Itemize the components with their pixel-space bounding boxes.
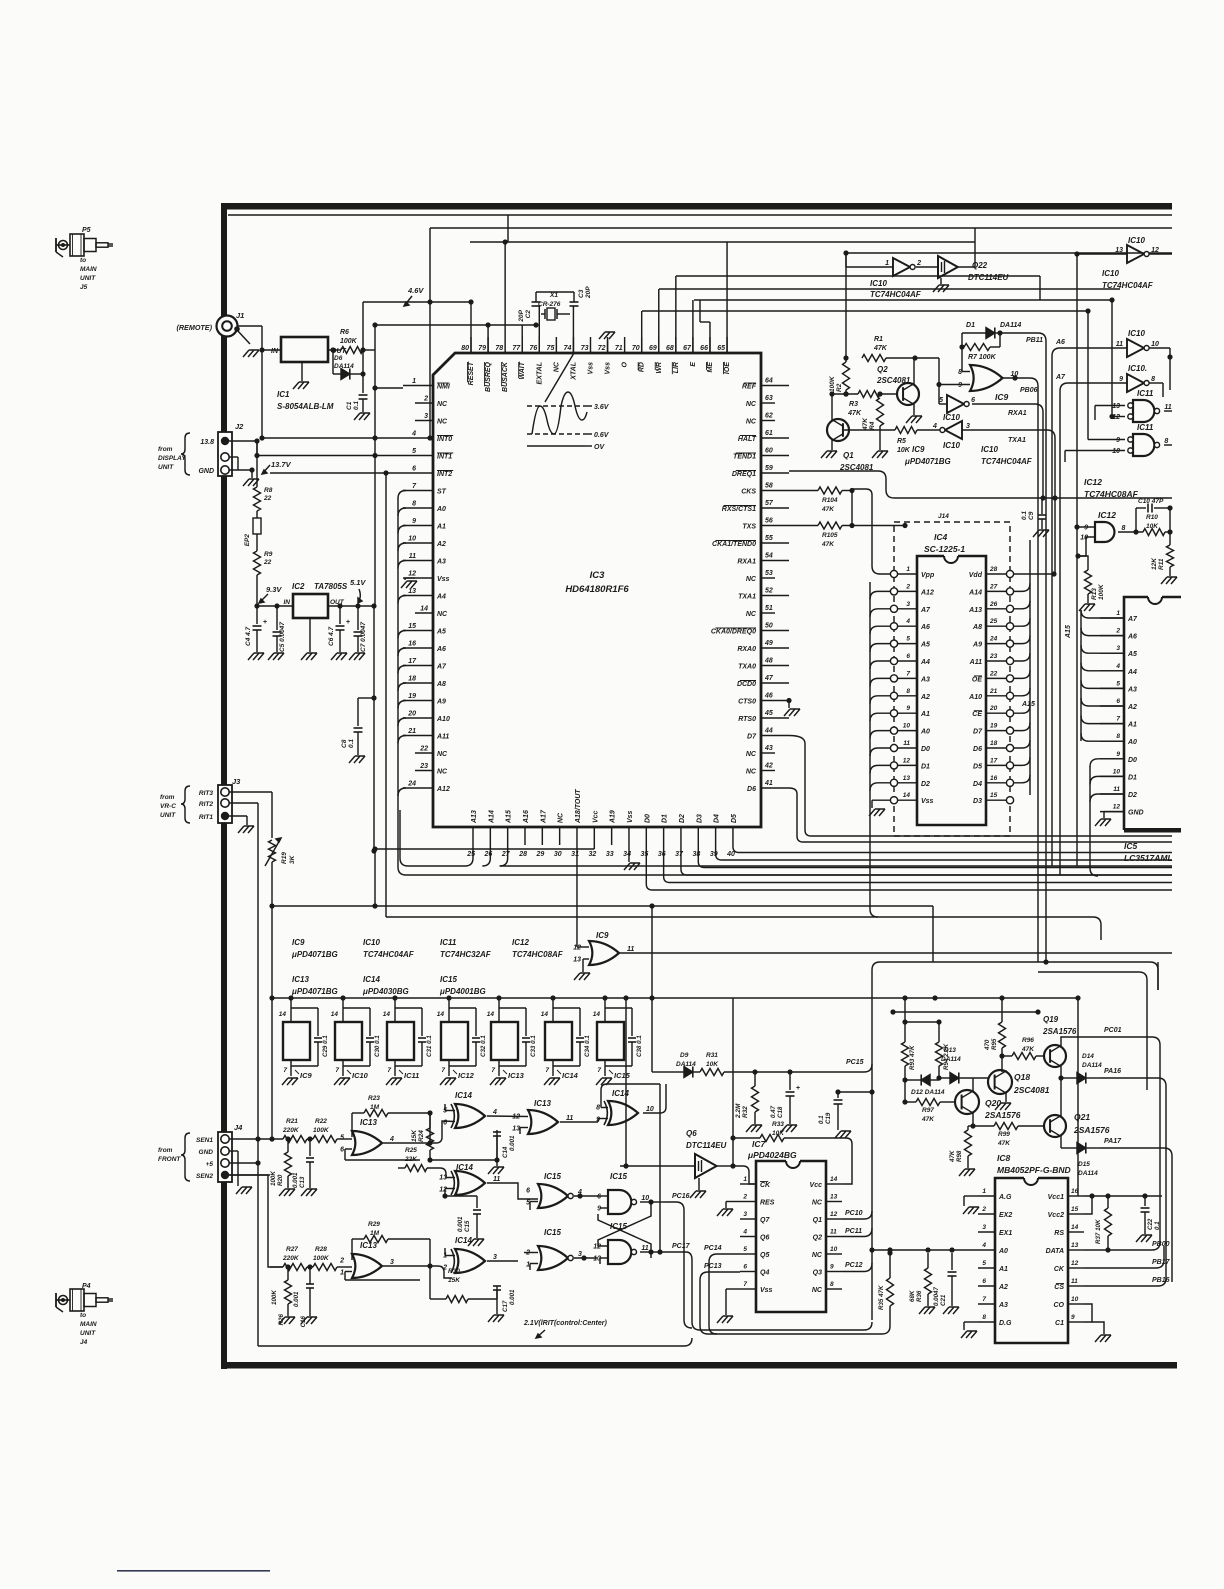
svg-text:PB06: PB06 [1020,387,1038,394]
wire x660 from IC14b to PC14 [659,1084,661,1254]
wire Q19 collector to PC01 [1061,1037,1090,1046]
svg-text:CK: CK [1054,1266,1065,1273]
svg-text:PC11: PC11 [845,1228,862,1235]
wire bus left elbow [429,228,431,438]
wire rail y1012 [893,1011,1038,1013]
svg-text:DA114: DA114 [334,363,354,370]
svg-text:RXS/CTS1: RXS/CTS1 [722,506,756,513]
svg-text:μPD4071BG: μPD4071BG [291,950,338,959]
svg-text:Vss: Vss [921,798,934,805]
wire long y917 [386,916,1093,918]
svg-text:C1: C1 [346,401,353,410]
svg-text:A13: A13 [471,810,478,824]
svg-text:NMI: NMI [437,384,451,391]
label IC10 TC74HC04AF row [363,938,415,959]
svg-text:53: 53 [765,570,773,577]
svg-text:RIT1: RIT1 [199,814,213,821]
IC4 pin 2 A12 [890,583,934,596]
IC3 pin 71 O [615,337,629,367]
ground Q2 emitter [906,404,922,423]
svg-text:MAIN: MAIN [80,266,97,273]
svg-text:47K: 47K [862,417,869,431]
ground IC15 bypass [596,1078,612,1085]
svg-text:C19: C19 [825,1112,832,1124]
svg-text:IC11: IC11 [1137,389,1154,398]
svg-text:58: 58 [765,483,773,490]
svg-text:IC15: IC15 [440,975,457,984]
wire R9 to IC2 IN rail [256,575,258,606]
svg-text:A1: A1 [920,711,930,718]
svg-text:12: 12 [408,571,416,578]
IC8 pin 9 C1 [1055,1314,1084,1327]
svg-text:IN: IN [271,348,279,355]
variable resistor R19 3K [265,838,296,866]
wire IC13a to IC14a [383,1113,455,1143]
IC7 pin 11 Q2 [813,1229,842,1242]
svg-text:R28: R28 [315,1246,327,1253]
wire A18/TOUT long vertical [576,845,578,936]
svg-text:17: 17 [408,658,417,665]
wire PB06 down [1030,378,1038,962]
ground C9 [1033,530,1049,537]
IC3 pin 14 NC [415,606,448,619]
ground IC3 pin34 Vss [624,845,640,870]
IC3 pin 46 CTS0 [738,693,789,706]
svg-text:R22: R22 [315,1118,327,1125]
IC3 pin 47 DCD0 [737,675,789,688]
svg-text:0.1: 0.1 [348,739,355,748]
svg-text:1: 1 [340,1270,344,1277]
svg-text:D1: D1 [662,814,669,823]
svg-text:+5: +5 [206,1161,214,1168]
svg-text:8: 8 [982,1314,986,1321]
capacitor C15 0.001 [445,1196,481,1238]
IC5 LC3517AML body [1124,597,1181,833]
svg-text:14: 14 [331,1011,339,1018]
svg-text:J14: J14 [938,513,949,520]
svg-text:3K: 3K [289,854,296,864]
svg-text:27: 27 [989,583,998,590]
ground R20 [279,1189,295,1196]
resistor R31 10K [693,1052,724,1076]
IC8 pin 4 A0 [978,1242,1008,1255]
ground Q18 emitter [995,1092,1011,1110]
wire node x1077 down [1076,254,1078,527]
svg-text:0.1: 0.1 [1154,1221,1161,1230]
resistor R29 1M [352,1221,430,1266]
IC4 pin 1 Vpp [890,566,935,579]
svg-text:66: 66 [700,345,708,352]
IC7 pin 3 Q7 [740,1211,770,1224]
IC7 pin 14 Vcc [810,1176,842,1189]
svg-text:C5 0.0047: C5 0.0047 [279,622,286,652]
svg-text:2.1V(lRIT(control:Center): 2.1V(lRIT(control:Center) [523,1320,608,1327]
ground J1 [237,330,250,344]
svg-text:R21: R21 [286,1118,298,1125]
inverter IC10 pins 5-6 [939,395,975,422]
svg-text:18: 18 [990,740,998,747]
svg-text:13: 13 [1071,1242,1079,1249]
svg-text:ST: ST [437,489,447,496]
IC4 pin 6 A4 [890,653,930,666]
wire IC13a out [0,0,1,1]
junction CKS-TXS [851,491,853,526]
svg-text:R36: R36 [916,1290,923,1302]
svg-text:A6: A6 [1055,339,1065,346]
wire R19 down [271,862,273,906]
IC8 pin 10 CO [1054,1296,1085,1309]
svg-text:R27: R27 [286,1246,298,1253]
IC3 pin 51 NC [746,605,775,618]
inverter IC10 pins 9-8 [1119,364,1155,392]
ground C7 [349,653,365,660]
ground C1 [354,413,370,420]
wire cross-couple lower [598,1214,651,1258]
svg-text:C1: C1 [1055,1320,1064,1327]
svg-text:A2: A2 [998,1284,1008,1291]
svg-text:R35 47K: R35 47K [878,1285,885,1310]
wire Q21 emitter up [1060,1078,1062,1116]
svg-text:J5: J5 [80,284,88,291]
IC3 pin 67 E [683,337,697,367]
svg-text:IC15: IC15 [544,1228,561,1237]
svg-text:10: 10 [830,1246,838,1253]
svg-text:TC74HC32AF: TC74HC32AF [440,950,492,959]
IC3 pin 38 D3 [692,814,703,858]
capacitor C7 0.0047 [354,606,368,652]
resistor R33 10K [733,1121,846,1142]
svg-text:5: 5 [906,636,910,643]
svg-text:BUSACK: BUSACK [502,361,509,392]
svg-text:C2: C2 [525,310,532,319]
resistor R99 47K [973,1123,1044,1148]
svg-text:14: 14 [541,1011,549,1018]
wire INT2 [270,472,403,474]
svg-text:from: from [158,1147,173,1154]
svg-text:R29: R29 [368,1221,380,1228]
wire TXA1 [962,430,1055,574]
label IC3 HD64180R1F6 [565,570,629,595]
svg-text:1: 1 [743,1176,747,1183]
svg-text:76: 76 [529,345,537,352]
svg-text:15K: 15K [411,1129,418,1142]
ground IC1 [301,362,303,381]
svg-text:LIR: LIR [673,362,680,373]
svg-text:8: 8 [1121,525,1125,532]
svg-text:13: 13 [903,775,911,782]
svg-text:O: O [622,361,629,367]
svg-text:A13: A13 [968,607,982,614]
svg-text:A8: A8 [436,681,446,688]
capacitor C16 0.001 [293,1267,314,1327]
svg-text:NC: NC [746,769,757,776]
svg-text:2SA1576: 2SA1576 [984,1110,1021,1120]
svg-text:RD: RD [639,362,646,372]
svg-text:8: 8 [596,1105,600,1112]
op-amp IC1 S-8054ALB-LM box [271,337,347,362]
svg-text:DISPLAY: DISPLAY [158,455,186,462]
wire Vcc pin14 loop [842,1138,852,1184]
svg-text:C17: C17 [502,1300,509,1312]
label 9.3V [259,585,282,603]
svg-text:R97: R97 [922,1107,934,1114]
resistor R5 10K [895,427,917,455]
svg-text:10K: 10K [706,1061,719,1068]
label IC14 uPD4030BG row [362,975,409,996]
transistor Q22 DTC114EU [938,256,1009,282]
svg-text:μPD4001BG: μPD4001BG [439,987,486,996]
svg-text:11: 11 [830,1229,837,1236]
ground C1 loop [1092,1322,1111,1342]
svg-text:12: 12 [1151,247,1159,254]
IC7 uPD4024BG body [756,1161,826,1312]
svg-text:from: from [158,446,173,453]
svg-text:9: 9 [1119,376,1123,383]
svg-text:CTS0: CTS0 [738,699,756,706]
svg-text:Q4: Q4 [760,1270,769,1277]
ground C17 [488,1315,504,1322]
svg-text:10: 10 [1080,535,1088,542]
transistor Q1 2SC4081 [827,419,874,472]
svg-text:IC12: IC12 [1084,477,1102,487]
svg-text:2: 2 [339,1258,344,1265]
IC7 pin 8 NC [812,1281,842,1294]
svg-text:PC16: PC16 [672,1193,690,1200]
wire Q21 collector down [1060,1136,1062,1148]
IC3 pin 11 A3 [403,553,446,566]
resistor R11 12K [1151,508,1174,576]
diode D13 DA114 [939,1047,988,1084]
svg-text:74: 74 [564,345,572,352]
ground R4 [872,451,888,458]
svg-text:PC14: PC14 [704,1245,722,1252]
svg-text:from: from [160,794,175,801]
svg-text:14: 14 [279,1011,287,1018]
svg-text:A5: A5 [436,629,446,636]
wire IC14c out to IC15a [487,1183,538,1199]
svg-text:A15: A15 [1021,701,1035,708]
svg-text:IC13: IC13 [508,1071,525,1080]
svg-text:R13: R13 [1091,588,1098,600]
wire IC14a pin5 in [445,1110,455,1112]
svg-text:IC9: IC9 [912,445,925,454]
wire R1 right [886,357,939,359]
svg-text:6: 6 [597,1194,601,1201]
IC3 pin 35 D0 [641,814,652,858]
capacitor C19 0.1 [818,1089,843,1130]
inverter IC10 pins 4-3 [932,421,970,450]
svg-text:56: 56 [765,518,773,525]
capacitor C5 0.0047 [273,606,287,652]
ground C8 [349,756,365,763]
svg-text:A0: A0 [436,506,446,513]
svg-text:A8: A8 [972,624,982,631]
nand-gate IC11 pins 13,12,11 [1112,389,1172,422]
wire IC14c pin12 [445,1188,455,1190]
IC3 pin 70 RD [632,337,646,372]
wire top rail to Q19 area [0,0,1,1]
svg-text:4: 4 [905,618,910,625]
wire PC11 [842,1228,872,1237]
IC3 pin 76 EXTAL [529,337,543,384]
svg-text:R37 10K: R37 10K [1095,1219,1102,1244]
capacitor C22 0.1 [1141,1196,1162,1234]
label to MAIN UNIT J4 [80,1312,97,1346]
svg-text:IC9: IC9 [300,1071,313,1080]
IC4 pin 10 A0 [890,723,930,736]
resistor R23 1M [352,1095,433,1117]
label 13.7V [262,460,292,474]
resistor R93 47K [902,1042,917,1102]
svg-text:60: 60 [765,448,773,455]
wire J2 pin2 [229,456,238,458]
wire J1 rail down [261,350,263,438]
IC8 pin 2 EX2 [978,1206,1012,1219]
wire R3 to Q2 base [880,393,898,395]
IC3 pin 3 NC [415,413,448,426]
IC8 pin 5 A1 [978,1260,1008,1273]
svg-text:R25: R25 [405,1147,417,1154]
svg-text:59: 59 [765,465,773,472]
svg-text:R6: R6 [340,329,349,336]
IC4 pin 5 A5 [890,636,930,649]
resistor R10 10K [1143,514,1173,536]
svg-text:72: 72 [598,345,606,352]
ground C14 [496,1160,498,1166]
wire Q2 rail down [845,253,847,358]
svg-text:D14: D14 [1082,1053,1094,1060]
svg-text:3: 3 [578,1251,582,1258]
wire x905 down [904,998,906,1042]
svg-text:5: 5 [340,1135,344,1142]
svg-text:PC10: PC10 [845,1210,863,1217]
IC3 pin 42 NC [746,763,775,776]
svg-text:47K: 47K [1021,1046,1035,1053]
IC3 pin 77 WAIT [512,337,526,380]
IC3 pin 13 A4 [403,588,446,601]
svg-text:100K: 100K [271,1290,278,1305]
svg-text:9: 9 [412,518,416,525]
svg-text:IC13: IC13 [360,1241,377,1250]
svg-text:IC13: IC13 [360,1118,377,1127]
wire IC15c pin13 [600,1257,608,1259]
svg-text:R23: R23 [368,1095,380,1102]
wire 5V rail lower [373,606,375,698]
IC5 pin 10 D1 [1100,768,1137,781]
svg-text:65: 65 [717,345,725,352]
IC4 pin 26 A13 [968,601,1013,614]
IC3 pin 21 A11 [403,728,449,741]
wire J4 +5 [229,1162,258,1164]
svg-text:A.G: A.G [998,1194,1012,1201]
IC3 pin 65 IOE [717,337,731,374]
svg-text:A6: A6 [920,624,930,631]
svg-text:1: 1 [1116,610,1120,617]
svg-text:6: 6 [982,1278,986,1285]
wire IC13b pin13 [520,1127,528,1129]
label IC7 uPD4024BG [747,1139,797,1160]
svg-text:48: 48 [764,658,773,665]
svg-text:470: 470 [984,1039,991,1051]
IC3 pin 68 LIR [666,337,680,374]
svg-text:NC: NC [437,419,448,426]
IC3 pin 12 Vss [403,571,450,584]
wire to IC10 pin13 [1077,253,1127,255]
svg-text:J2: J2 [235,422,244,431]
capacitor C8 0.1 [341,698,374,755]
wire IC3 pin70 up [641,311,643,353]
wire bus line y228 [430,227,1172,229]
wire INT0 [262,437,403,439]
capacitor C31 0.1 [395,1008,433,1066]
svg-text:Vcc1: Vcc1 [1048,1194,1064,1201]
wire IC15d pin2 [524,1252,538,1254]
IC3 pin 63 NC [746,395,775,408]
svg-text:C33 0.1: C33 0.1 [530,1035,537,1057]
svg-text:Q2: Q2 [877,365,888,374]
label IC10 TC74HC04AF [981,445,1033,466]
IC3 pin 29 A17 [536,809,548,858]
svg-text:12K: 12K [1151,557,1158,570]
svg-text:47K: 47K [847,410,862,417]
svg-text:A17: A17 [540,809,547,824]
svg-text:IC14: IC14 [455,1236,472,1245]
svg-text:A15: A15 [1065,625,1072,639]
connector J1 (REMOTE) [176,311,244,337]
svg-text:6: 6 [743,1264,747,1271]
IC3 pin 10 A2 [403,536,446,549]
wire IC2 output rail [328,605,375,607]
svg-text:9: 9 [906,705,910,712]
resistor R94 2.2K [936,1022,951,1081]
svg-text:7: 7 [441,1067,445,1074]
svg-text:DTC114EU: DTC114EU [686,1141,727,1150]
svg-text:IC9: IC9 [995,392,1009,402]
IC3 pin 43 NC [746,745,775,758]
svg-text:0.001: 0.001 [457,1216,464,1232]
svg-text:TXA1: TXA1 [738,594,756,601]
wire SEN2 down to IC13 [229,1175,283,1267]
svg-text:PC17: PC17 [672,1243,691,1250]
wire IC3 pin68 up [675,276,677,353]
wire OR pin8 [961,347,963,372]
wire J3 RIT2 [229,802,258,804]
svg-text:62: 62 [765,413,773,420]
svg-text:21: 21 [989,688,998,695]
IC4 pin 14 Vss [890,792,933,805]
svg-text:IC10: IC10 [943,413,960,422]
svg-text:CKS: CKS [741,489,756,496]
IC3 pin 24 A12 [403,781,450,794]
svg-text:LC3517AML: LC3517AML [1124,853,1173,863]
svg-text:R31: R31 [706,1052,718,1059]
wire CS right PB16 [1084,1285,1150,1287]
wire IC10 pin5 in [938,385,940,405]
capacitor C38 0.1 [605,1008,643,1066]
svg-text:5: 5 [982,1260,986,1267]
svg-text:NC: NC [437,401,448,408]
ground top Vss pins [599,332,615,353]
IC7 pin 9 Q3 [813,1264,842,1277]
wire x1078 down to Vcc1 [1077,998,1079,1196]
ground IC9 pin13 [574,959,590,980]
svg-text:D13: D13 [944,1047,956,1054]
svg-text:NC: NC [812,1252,823,1259]
svg-text:CS: CS [1054,1284,1064,1291]
svg-text:OUT: OUT [330,599,345,606]
svg-text:Q5: Q5 [760,1252,769,1259]
ground R32 [746,1125,762,1132]
